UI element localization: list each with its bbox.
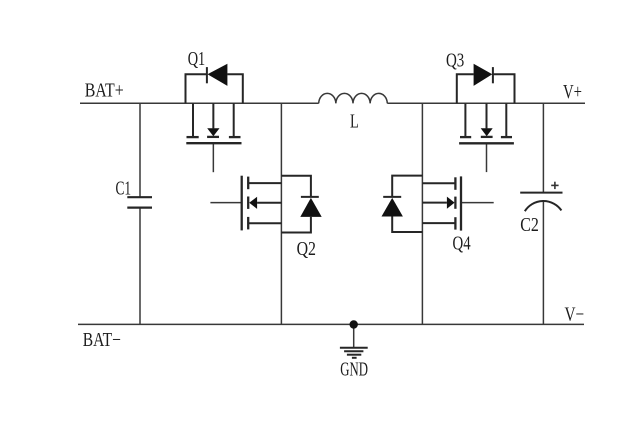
svg-text:BAT−: BAT− [83,329,121,351]
svg-text:V−: V− [565,304,585,326]
svg-text:GND: GND [340,358,368,380]
svg-text:C1: C1 [116,178,132,200]
svg-text:V+: V+ [563,81,582,103]
svg-text:Q4: Q4 [453,232,471,254]
svg-text:L: L [350,110,359,132]
svg-text:Q2: Q2 [297,238,316,260]
svg-text:BAT+: BAT+ [85,79,124,101]
svg-text:Q1: Q1 [188,48,206,70]
svg-text:Q3: Q3 [446,50,464,72]
svg-text:C2: C2 [520,214,539,236]
